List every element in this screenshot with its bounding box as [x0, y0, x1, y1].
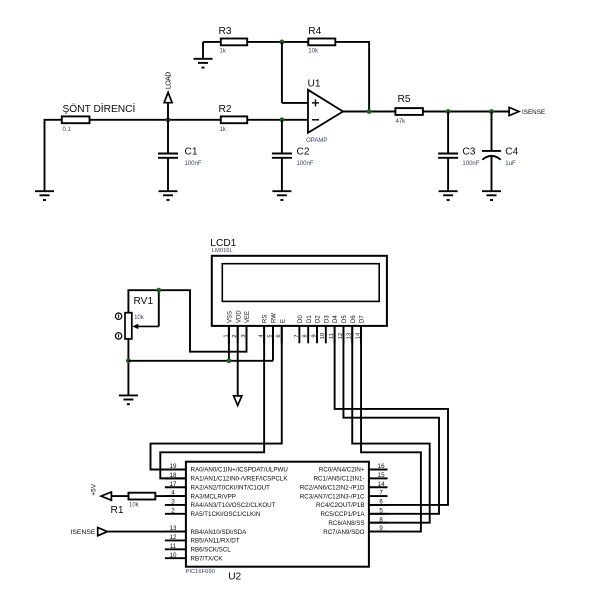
- svg-text:VEE: VEE: [245, 311, 251, 323]
- svg-text:OPAMP: OPAMP: [306, 138, 327, 144]
- svg-text:19: 19: [170, 463, 177, 470]
- svg-text:RB6/SCK/SCL: RB6/SCK/SCL: [191, 547, 232, 554]
- svg-text:C3: C3: [462, 146, 475, 157]
- svg-text:LOAD: LOAD: [165, 72, 172, 89]
- svg-text:D2: D2: [316, 315, 322, 323]
- svg-text:ISENSE: ISENSE: [522, 109, 545, 116]
- svg-text:100nF: 100nF: [185, 161, 202, 167]
- svg-text:RS: RS: [263, 315, 269, 323]
- svg-text:VSS: VSS: [228, 311, 234, 323]
- svg-text:U2: U2: [228, 571, 241, 582]
- svg-text:RB7/TX/CK: RB7/TX/CK: [191, 555, 224, 562]
- svg-text:RB5/AN11/RX/DT: RB5/AN11/RX/DT: [191, 538, 240, 545]
- svg-text:18: 18: [170, 472, 177, 479]
- svg-text:0.1: 0.1: [63, 127, 72, 133]
- svg-text:9: 9: [311, 334, 317, 337]
- svg-text:LM016L: LM016L: [212, 248, 234, 254]
- svg-text:RC0/AN4/C2IN+: RC0/AN4/C2IN+: [319, 467, 365, 474]
- svg-text:C1: C1: [185, 146, 198, 157]
- svg-text:8: 8: [379, 516, 383, 523]
- svg-text:RA3/MCLR/VPP: RA3/MCLR/VPP: [191, 493, 236, 500]
- svg-text:PIC16F690: PIC16F690: [186, 569, 215, 575]
- svg-text:C4: C4: [505, 146, 518, 157]
- svg-text:1k: 1k: [220, 49, 227, 55]
- svg-text:R4: R4: [308, 26, 321, 37]
- svg-text:R5: R5: [398, 94, 411, 105]
- svg-text:R2: R2: [219, 104, 232, 115]
- svg-text:RC2/AN6/C12IN2-/P1D: RC2/AN6/C12IN2-/P1D: [300, 484, 365, 491]
- svg-text:10: 10: [320, 333, 326, 339]
- svg-text:1uF: 1uF: [505, 161, 516, 167]
- svg-text:E: E: [280, 319, 286, 323]
- svg-text:RV1: RV1: [134, 296, 154, 307]
- svg-text:D4: D4: [333, 315, 339, 323]
- svg-text:2: 2: [171, 507, 175, 514]
- svg-text:ŞÖNT DİRENCİ: ŞÖNT DİRENCİ: [63, 102, 136, 115]
- svg-text:RA1/AN1/C12IN0-/VREF/ICSPCLK: RA1/AN1/C12IN0-/VREF/ICSPCLK: [191, 476, 289, 483]
- svg-text:9: 9: [379, 525, 383, 532]
- svg-text:8: 8: [303, 334, 309, 337]
- svg-text:10k: 10k: [129, 502, 140, 508]
- svg-text:10: 10: [170, 552, 177, 559]
- svg-text:7: 7: [379, 490, 383, 497]
- svg-text:+5V: +5V: [91, 483, 98, 496]
- svg-text:RA4/AN3/T1G/OSC2/CLKOUT: RA4/AN3/T1G/OSC2/CLKOUT: [191, 502, 276, 509]
- svg-text:D1: D1: [307, 315, 313, 323]
- svg-text:R3: R3: [219, 26, 232, 37]
- svg-text:RC7/AN9/SDO: RC7/AN9/SDO: [323, 529, 364, 536]
- svg-text:VDD: VDD: [236, 310, 242, 323]
- svg-text:RB4/AN10/SDI/SDA: RB4/AN10/SDI/SDA: [191, 529, 248, 536]
- svg-text:U1: U1: [308, 79, 321, 90]
- svg-text:RA0/AN0/C1IN+/ICSPDAT/ULPWU: RA0/AN0/C1IN+/ICSPDAT/ULPWU: [191, 467, 288, 474]
- svg-text:6: 6: [379, 499, 383, 506]
- svg-text:5: 5: [379, 507, 383, 514]
- svg-text:D3: D3: [324, 315, 330, 323]
- svg-text:RC1/AN5/C12IN1-: RC1/AN5/C12IN1-: [314, 476, 365, 483]
- svg-text:RC5/CCP1/P1A: RC5/CCP1/P1A: [320, 511, 365, 518]
- svg-text:100nF: 100nF: [462, 161, 479, 167]
- svg-text:D0: D0: [298, 315, 304, 323]
- svg-text:RC6/AN8/SS: RC6/AN8/SS: [328, 520, 364, 527]
- svg-text:47k: 47k: [396, 119, 407, 125]
- svg-text:7: 7: [294, 334, 300, 337]
- svg-text:15: 15: [378, 472, 385, 479]
- svg-text:10k: 10k: [308, 49, 319, 55]
- svg-text:RC4/C2OUT/P1B: RC4/C2OUT/P1B: [316, 502, 364, 509]
- svg-text:RA2/AN2/T0CKI/INT/C1OUT: RA2/AN2/T0CKI/INT/C1OUT: [191, 484, 271, 491]
- svg-text:RW: RW: [272, 313, 278, 323]
- svg-text:RC3/AN7/C12IN3-/P1C: RC3/AN7/C12IN3-/P1C: [300, 493, 365, 500]
- svg-text:11: 11: [170, 543, 177, 550]
- svg-text:3: 3: [171, 499, 175, 506]
- svg-text:ISENSE: ISENSE: [71, 529, 96, 536]
- svg-text:C2: C2: [297, 146, 310, 157]
- svg-text:D6: D6: [351, 315, 357, 323]
- svg-text:100nF: 100nF: [297, 161, 314, 167]
- svg-text:RA5/T1CKI/OSC1/CLKIN: RA5/T1CKI/OSC1/CLKIN: [191, 511, 261, 518]
- svg-text:16: 16: [378, 463, 385, 470]
- svg-text:R1: R1: [111, 505, 124, 516]
- svg-text:17: 17: [170, 481, 177, 488]
- svg-text:D7: D7: [360, 315, 366, 323]
- svg-text:10k: 10k: [134, 315, 145, 321]
- svg-text:D5: D5: [342, 315, 348, 323]
- svg-text:12: 12: [170, 534, 177, 541]
- svg-text:1k: 1k: [220, 127, 227, 133]
- svg-text:14: 14: [378, 481, 385, 488]
